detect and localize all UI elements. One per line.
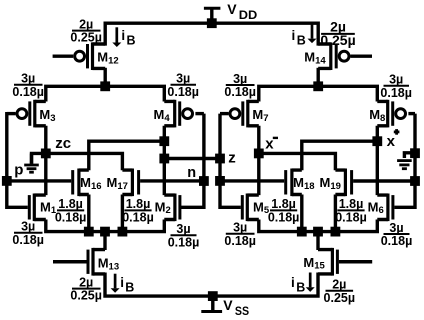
wire M14 drain stub (317, 68, 320, 87)
label x+ (387, 129, 400, 150)
transistor M6 (NMOS) (377, 194, 393, 222)
svg-text:1.8µ: 1.8µ (58, 197, 83, 211)
current arrow iB into M14 (308, 24, 317, 43)
current arrow iB out of M13 (111, 274, 120, 293)
svg-text:0.18µ: 0.18µ (381, 234, 413, 248)
wire M17 source stub (121, 195, 124, 232)
wire M3/M4 common source wire (46, 86, 165, 101)
svg-text:3µ: 3µ (21, 220, 35, 234)
svg-text:3µ: 3µ (389, 221, 403, 235)
node n junction (199, 176, 209, 186)
svg-text:i: i (291, 275, 295, 290)
svg-text:0.25µ: 0.25µ (324, 291, 356, 305)
transistor M2 (NMOS) (164, 194, 180, 222)
transistor M12 (PMOS current source) (53, 42, 106, 70)
power VDD terminal (204, 8, 221, 23)
transistor M7 (PMOS) (220, 100, 259, 128)
wire M7-M5 drain column (257, 126, 260, 195)
svg-text:0.25µ: 0.25µ (320, 32, 355, 48)
value label M13 W/L 2u/0.25u (70, 275, 102, 302)
wire M7/M8 common source wire (259, 86, 378, 101)
node zc junction (41, 149, 51, 159)
svg-text:DD: DD (239, 10, 257, 22)
node tail right c junction (331, 227, 341, 237)
wire M13 drain stub (103, 232, 106, 250)
node M14 drain / M7-M8 sources junction (313, 81, 323, 91)
svg-text:3µ: 3µ (176, 222, 190, 236)
wire p wire to M16 gate (7, 179, 71, 182)
svg-text:0.18µ: 0.18µ (122, 210, 154, 224)
svg-text:0.18µ: 0.18µ (12, 233, 44, 247)
node tail left c junction (118, 227, 128, 237)
node x+ ground tie junction (410, 148, 420, 158)
svg-text:0.18µ: 0.18µ (12, 85, 44, 99)
transistor M3 (PMOS) (7, 100, 46, 128)
wire z wire to M18 gate (220, 179, 284, 182)
node M16 drain tie junction (159, 136, 169, 146)
wire M15 drain stub (316, 232, 319, 250)
svg-text:2µ: 2µ (79, 17, 93, 31)
svg-text:V: V (223, 297, 233, 313)
transistor M15 (NMOS current sink) (318, 248, 372, 276)
wire M19 source stub (334, 195, 337, 232)
wire M12 drain stub (103, 68, 106, 87)
wire n column (M4/M17/M2 gates) (181, 114, 204, 208)
svg-text:zc: zc (55, 135, 71, 152)
svg-text:0.18µ: 0.18µ (168, 235, 200, 249)
wire z wire (left half to z column) (164, 157, 220, 160)
value label M15 W/L 2u/0.25u (324, 278, 356, 305)
svg-text:2µ: 2µ (332, 278, 346, 292)
svg-text:3µ: 3µ (176, 72, 190, 86)
svg-text:0.18µ: 0.18µ (380, 86, 412, 100)
transistor M1 (NMOS) (29, 194, 46, 222)
svg-text:0.18µ: 0.18µ (268, 210, 300, 224)
wire M8-M6 drain column (376, 126, 379, 195)
node tail left b junction (100, 227, 110, 237)
wire left tail wire (46, 220, 165, 232)
svg-text:B: B (125, 281, 134, 295)
node VSS junction (208, 291, 218, 301)
value label M6 W/L 3u/0.18u (381, 221, 413, 248)
node z takeoff junction (159, 154, 169, 164)
wire M18 drain up-and-over wire (302, 141, 378, 170)
transistor M8 (PMOS) (377, 100, 415, 128)
node M12 drain / M3-M4 sources junction (100, 81, 110, 91)
svg-text:0.25µ: 0.25µ (70, 289, 102, 303)
svg-text:B: B (297, 33, 306, 47)
svg-text:2µ: 2µ (79, 275, 93, 289)
value label M7 W/L 3u/0.18u (224, 72, 256, 99)
label x- (265, 136, 278, 153)
transistor M19 (NMOS) (335, 169, 351, 197)
wire VDD rail with M12/M14 source stubs (105, 23, 318, 45)
value label M3 W/L 3u/0.18u (12, 72, 44, 99)
value label M14 W/L 2u/0.25u (320, 19, 355, 48)
svg-text:B: B (296, 281, 305, 295)
node tail left a junction (84, 227, 94, 237)
node tail right b junction (313, 227, 323, 237)
svg-text:1.8µ: 1.8µ (271, 197, 296, 211)
node M18 drain tie junction (372, 136, 382, 146)
svg-text:0.25µ: 0.25µ (70, 31, 102, 45)
svg-text:V: V (227, 1, 237, 17)
transistor M16 (NMOS) (73, 169, 89, 197)
wire n wire from M17 gate (140, 179, 204, 182)
value label M17 W/L 1.8u/0.18u (122, 197, 154, 224)
value label M16 W/L 1.8u/0.18u (55, 197, 87, 224)
ground x+ ground (397, 158, 412, 169)
wire M16 drain up-and-over wire (89, 141, 165, 170)
transistor M17 (NMOS) (122, 169, 138, 197)
node p junction (2, 176, 12, 186)
node x- junction (254, 149, 264, 159)
svg-text:p: p (14, 161, 23, 178)
ground zc ground (24, 153, 39, 172)
current arrow iB out of M15 (306, 273, 315, 292)
svg-text:3µ: 3µ (233, 221, 247, 235)
svg-text:1.8µ: 1.8µ (339, 197, 364, 211)
svg-text:3µ: 3µ (389, 73, 403, 87)
node z junction upper junction (215, 154, 225, 164)
power VSS terminal (201, 296, 222, 311)
value label M18 W/L 1.8u/0.18u (268, 197, 300, 224)
svg-text:3µ: 3µ (21, 72, 35, 86)
svg-text:x: x (387, 133, 396, 150)
svg-text:SS: SS (235, 306, 250, 318)
wire M16 source stub (87, 195, 90, 232)
value label M19 W/L 1.8u/0.18u (335, 197, 367, 224)
current arrow iB into M12 (112, 27, 121, 47)
wire right tail wire (259, 220, 378, 232)
value label M5 W/L 3u/0.18u (224, 221, 256, 248)
wire VSS rail with M13/M15 source stubs (105, 273, 318, 297)
wire x+ wire from M19 gate (353, 179, 415, 182)
svg-text:0.18µ: 0.18µ (224, 234, 256, 248)
svg-text:B: B (127, 33, 136, 47)
svg-text:0.18µ: 0.18µ (55, 210, 87, 224)
transistor M18 (NMOS) (286, 169, 302, 197)
transistor M14 (PMOS current source) (318, 42, 372, 70)
svg-text:0.18µ: 0.18µ (224, 85, 256, 99)
svg-text:i: i (120, 275, 124, 290)
value label M8 W/L 3u/0.18u (380, 73, 412, 100)
svg-text:n: n (187, 165, 196, 181)
wire M18 source stub (300, 195, 303, 232)
wire M4-M2 drain column (163, 126, 166, 195)
svg-text:i: i (292, 28, 296, 43)
svg-text:0.18µ: 0.18µ (167, 85, 199, 99)
wire p column (M3/M16/M1 gates) (7, 112, 28, 207)
wire z column (M7/M18/M5 gates) (220, 114, 241, 208)
value label M4 W/L 3u/0.18u (167, 72, 199, 99)
wire x+ ground arm (404, 153, 415, 158)
transistor M13 (NMOS current sink) (53, 248, 105, 276)
transistor M5 (NMOS) (242, 194, 258, 222)
svg-text:3µ: 3µ (233, 72, 247, 86)
svg-text:1.8µ: 1.8µ (126, 197, 151, 211)
transistor M4 (PMOS) (164, 100, 204, 128)
svg-text:z: z (228, 150, 236, 167)
value label M12 W/L 2u/0.25u (70, 17, 102, 44)
node z junction lower junction (215, 176, 225, 186)
node x+ gate tie junction (410, 176, 420, 186)
value label M1 W/L 3u/0.18u (12, 220, 44, 247)
wire x- wire to M19 drain (259, 153, 336, 170)
wire M3-M1 drain column (44, 126, 47, 195)
wire x+ column (M8/M19/M6 gates) (394, 114, 415, 208)
value label M2 W/L 3u/0.18u (168, 222, 200, 249)
node VDD junction (207, 18, 217, 28)
wire zc wire to M17 drain (32, 153, 123, 170)
node tail right a junction (297, 227, 307, 237)
svg-text:0.18µ: 0.18µ (335, 210, 367, 224)
svg-text:i: i (121, 28, 125, 43)
